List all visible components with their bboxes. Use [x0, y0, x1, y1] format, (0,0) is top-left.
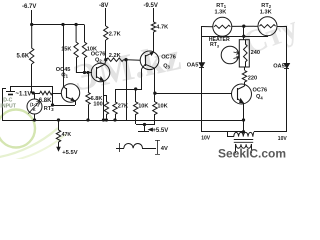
- resistor 5.6K: [30, 25, 34, 65]
- transistor Q3 base bar: [145, 55, 147, 66]
- wire left diode down: [201, 67, 203, 132]
- svg-text:OA5: OA5: [273, 63, 285, 69]
- svg-text:47K: 47K: [62, 132, 72, 138]
- node bridge mid junction: [243, 25, 245, 27]
- svg-text:10K: 10K: [138, 104, 148, 110]
- Q1 emitter arrow: [71, 98, 74, 100]
- diode OA5 right bar: [284, 68, 289, 70]
- watermark diagonal center: [69, 35, 185, 101]
- wire input minus lead: [2, 88, 4, 120]
- wire RT3 to bottom rail: [34, 114, 36, 120]
- svg-text:-9.5V: -9.5V: [144, 3, 158, 9]
- Q4 emitter arrow: [240, 99, 244, 103]
- node 2.2K left junction: [105, 59, 107, 61]
- svg-text:OC76: OC76: [253, 88, 268, 94]
- Q2 emitter arrow: [100, 77, 103, 80]
- thermistor RT1 circle: [213, 17, 232, 36]
- wire -8V feed: [105, 8, 107, 26]
- resistor 2.7K: [104, 26, 108, 40]
- wire 27K top: [115, 89, 117, 102]
- thermal coupling arrow 2: [234, 56, 240, 59]
- node base wire 10K junction: [83, 71, 85, 73]
- wire battery branch down: [52, 86, 54, 105]
- wire 6.8K vertical to rail: [88, 105, 90, 120]
- thermistor RT1 element: [214, 25, 230, 28]
- wire Q3 collector down: [154, 68, 156, 102]
- node RT3 bottom rail junction: [33, 119, 35, 121]
- wire right diode down: [286, 68, 288, 132]
- wire top rail: [32, 24, 84, 26]
- svg-text:-8V: -8V: [99, 3, 108, 9]
- transistor Q2 collector lead: [96, 64, 105, 68]
- thermistor RT3 arrow: [28, 101, 40, 114]
- svg-text:-6.7V: -6.7V: [22, 4, 36, 10]
- svg-text:1.3K: 1.3K: [260, 10, 272, 16]
- wire into heater box: [243, 36, 245, 40]
- svg-text:4V: 4V: [161, 146, 168, 152]
- wire left diode top: [201, 26, 203, 63]
- arrow +5.5V mid: [149, 128, 153, 131]
- resistor 2.2K: [107, 58, 124, 62]
- transistor Q3 upper lead: [145, 52, 153, 56]
- wire bottom rail: [2, 120, 244, 122]
- resistor 47K: [56, 130, 60, 142]
- svg-text:100: 100: [93, 102, 102, 108]
- wire Q3 collector to Q4 base: [155, 93, 232, 95]
- wire bias bar: [115, 89, 142, 91]
- node heater bus junction: [243, 35, 245, 37]
- node 27K rail junction: [114, 119, 116, 121]
- wire input minus stub: [2, 88, 6, 90]
- wire emitter return: [52, 105, 75, 107]
- wire 10K bottoms join: [136, 124, 155, 126]
- svg-text:Q4: Q4: [256, 94, 263, 100]
- diode OA5 left bar: [199, 67, 204, 69]
- wire element bottom: [245, 62, 247, 67]
- wire +5.5V tap: [144, 124, 146, 131]
- transistor Q4 collector lead: [237, 86, 244, 90]
- wire RT2 bottom stub: [267, 35, 269, 37]
- wire 27K to rail: [115, 114, 117, 120]
- wire to 6.8K vertical: [88, 72, 90, 92]
- wire primary left riser: [227, 132, 229, 137]
- diode OA5 right triangle: [284, 64, 289, 69]
- node top rail 15K junction: [75, 23, 77, 25]
- transistor Q3 emitter-left lead: [142, 64, 146, 69]
- svg-text:OC76: OC76: [161, 54, 176, 60]
- resistor 240 heater element: [244, 44, 248, 62]
- wire node A to 6.8K: [32, 93, 40, 95]
- transistor Q1 emitter lead: [66, 97, 75, 101]
- wire left return to center tap: [202, 131, 244, 133]
- transistor Q2 circle: [91, 63, 110, 82]
- wire right return: [254, 131, 287, 133]
- wire Q1 emitter down: [75, 101, 77, 105]
- resistor 10K lower-2: [153, 102, 157, 115]
- wire Q1 collector up to rail: [63, 24, 65, 86]
- thermistor RT2 circle: [258, 17, 277, 36]
- svg-text:RT2: RT2: [261, 3, 271, 9]
- thermistor RT3 circle: [27, 99, 42, 114]
- wire RT1 to RT2: [232, 25, 259, 27]
- wire jog to 100 ohm: [104, 95, 106, 97]
- node top rail left junction: [31, 23, 33, 25]
- node base wire 6.8K junction: [87, 71, 89, 73]
- wire RT1 left: [202, 26, 214, 28]
- svg-text:10K: 10K: [157, 104, 167, 110]
- tick 4V top: [155, 140, 160, 142]
- wire secondary left lead: [235, 144, 237, 153]
- resistor 27K: [113, 102, 117, 115]
- wire battery top lead: [10, 86, 12, 91]
- svg-text:220: 220: [248, 76, 257, 82]
- node +5.5V tap junction: [143, 123, 145, 125]
- node top rail Q1 collector junction: [62, 23, 64, 25]
- watermark diagonal top right: [238, 10, 303, 64]
- wire secondary right lead: [251, 144, 253, 153]
- svg-text:SeekIC.com: SeekIC.com: [218, 147, 286, 160]
- svg-text:~1.1V: ~1.1V: [16, 91, 32, 97]
- thermistor RT2 element: [259, 25, 275, 28]
- wire 6.8K to Q1 base: [52, 93, 61, 95]
- tick 4V bottom: [155, 154, 160, 156]
- node 47K rail junction: [57, 119, 59, 121]
- wire battery plus to Q1 emitter branch: [10, 86, 52, 88]
- svg-text:Q1: Q1: [61, 73, 68, 79]
- wire 5.6K to node A: [31, 64, 33, 93]
- coil 4V winding: [124, 144, 143, 149]
- transistor Q4 base bar: [237, 88, 239, 100]
- heater element box: [239, 40, 249, 67]
- wire 4V coil left: [116, 148, 124, 150]
- wire bridge mid down: [243, 26, 245, 36]
- wire right diode top: [286, 26, 288, 64]
- transistor Q3 collector lead: [145, 64, 155, 68]
- transistor Q1 circle: [61, 84, 79, 102]
- svg-text:5.6K: 5.6K: [17, 54, 30, 60]
- svg-text:27K: 27K: [118, 104, 128, 110]
- thermistor RT3 heater circle: [221, 46, 239, 64]
- svg-text:RT3: RT3: [44, 106, 54, 112]
- node rail transformer tap junction: [242, 119, 244, 121]
- wire Q2 emitter to rail: [103, 81, 105, 120]
- transistor Q4 circle: [232, 84, 252, 104]
- battery short plate: [8, 94, 13, 96]
- battery long plate: [6, 91, 15, 93]
- wire Q2 base: [76, 72, 92, 74]
- wire heater box to 220: [244, 67, 246, 70]
- resistor 100 ohm: [104, 102, 108, 115]
- wire 2.2K node to rail: [126, 60, 128, 120]
- watermark green swoosh: [0, 128, 58, 158]
- resistor 6.8K vertical: [86, 92, 90, 104]
- wire Q2 collector to 2.2K node: [104, 60, 107, 64]
- transformer secondary winding: [236, 144, 252, 148]
- resistor 220: [242, 71, 246, 83]
- thermal coupling arrow 1: [234, 51, 240, 54]
- wire heater bus: [202, 36, 268, 38]
- node Q3 collector to Q4 base junction: [154, 92, 156, 94]
- svg-text:1.3K: 1.3K: [215, 10, 227, 16]
- node A junction: [32, 92, 34, 94]
- wire RT2 right: [277, 26, 287, 28]
- wire rail to 47K: [58, 120, 60, 130]
- wire 220 to Q4: [244, 82, 246, 86]
- transistor Q2 emitter lead: [96, 77, 103, 81]
- wire element top: [245, 40, 247, 44]
- svg-text:OA5: OA5: [187, 62, 199, 68]
- bar 4V right: [157, 140, 159, 154]
- svg-text:RT3: RT3: [210, 42, 220, 48]
- wire coil right lead riser: [253, 132, 254, 137]
- resistor 10K upper: [82, 25, 86, 59]
- transistor Q1 base bar: [66, 88, 68, 98]
- svg-text:INPUT: INPUT: [0, 104, 16, 110]
- svg-text:10V: 10V: [278, 136, 288, 142]
- node 10K-1 top junction: [135, 88, 137, 90]
- wire 15K to Q2 base: [76, 58, 78, 72]
- wire Q3 left lead down to bias bar: [141, 69, 143, 89]
- bar +5.5V tap: [138, 131, 149, 133]
- bar 4V left: [119, 143, 121, 152]
- transistor Q1 collector lead: [63, 86, 66, 89]
- resistor 6.8K horizontal: [40, 91, 53, 95]
- wire Q3 to 4.7K: [153, 32, 155, 52]
- node return wire crossing: [242, 131, 244, 133]
- svg-text:+5.5V: +5.5V: [62, 150, 77, 156]
- transformer core: [234, 139, 253, 141]
- wire 10K-2 below rail: [154, 114, 156, 124]
- transformer primary winding: [234, 132, 253, 136]
- svg-text:10V: 10V: [201, 136, 211, 142]
- transistor Q4 emitter lead: [237, 99, 243, 104]
- wire RT1 bottom stub: [222, 35, 224, 37]
- resistor 10K lower-1: [134, 102, 138, 115]
- diode OA5 left triangle: [199, 63, 204, 67]
- node 100 ohm rail junction: [105, 119, 107, 121]
- wire 47K to +5.5V point: [58, 142, 60, 148]
- resistor 4.7K: [151, 22, 155, 32]
- wire 100 ohm top: [106, 95, 108, 102]
- svg-text:15K: 15K: [61, 47, 71, 53]
- node Q2 emitter rail junction: [102, 119, 104, 121]
- svg-text:+5.5V: +5.5V: [152, 128, 168, 134]
- svg-text:2.7K: 2.7K: [109, 32, 121, 38]
- wire Q4 emitter to transformer tap: [243, 103, 245, 133]
- resistor 15K: [74, 25, 78, 59]
- svg-text:4.7K: 4.7K: [156, 25, 168, 31]
- arrowhead +5.5V point: [57, 147, 60, 150]
- wire node A down to RT3: [34, 93, 36, 99]
- transistor Q2 base bar: [96, 67, 98, 78]
- node 6.8K rail junction: [87, 119, 89, 121]
- node 2.2K right junction: [125, 59, 127, 61]
- wire 2.2K to Q3 base: [124, 59, 141, 62]
- wire 10K-1 top: [135, 89, 137, 102]
- wire 4V coil right: [142, 148, 156, 150]
- wire 100 ohm to rail: [106, 114, 108, 120]
- svg-text:Q3: Q3: [163, 63, 170, 69]
- node emitter return junction: [51, 104, 53, 106]
- svg-text:240: 240: [251, 50, 260, 56]
- svg-text:RT1: RT1: [216, 3, 226, 9]
- Q3 arrow: [150, 52, 153, 55]
- wire 10K-1 below rail: [135, 114, 137, 124]
- wire 2.7K down: [105, 40, 107, 60]
- wire -9.5V feed: [153, 8, 155, 22]
- transistor Q3 circle: [140, 51, 159, 70]
- wire 10K down: [84, 58, 86, 72]
- wire -6.7V feed down: [31, 10, 33, 24]
- wire primary left lead: [228, 136, 234, 138]
- watermark green logo circle: [0, 110, 35, 148]
